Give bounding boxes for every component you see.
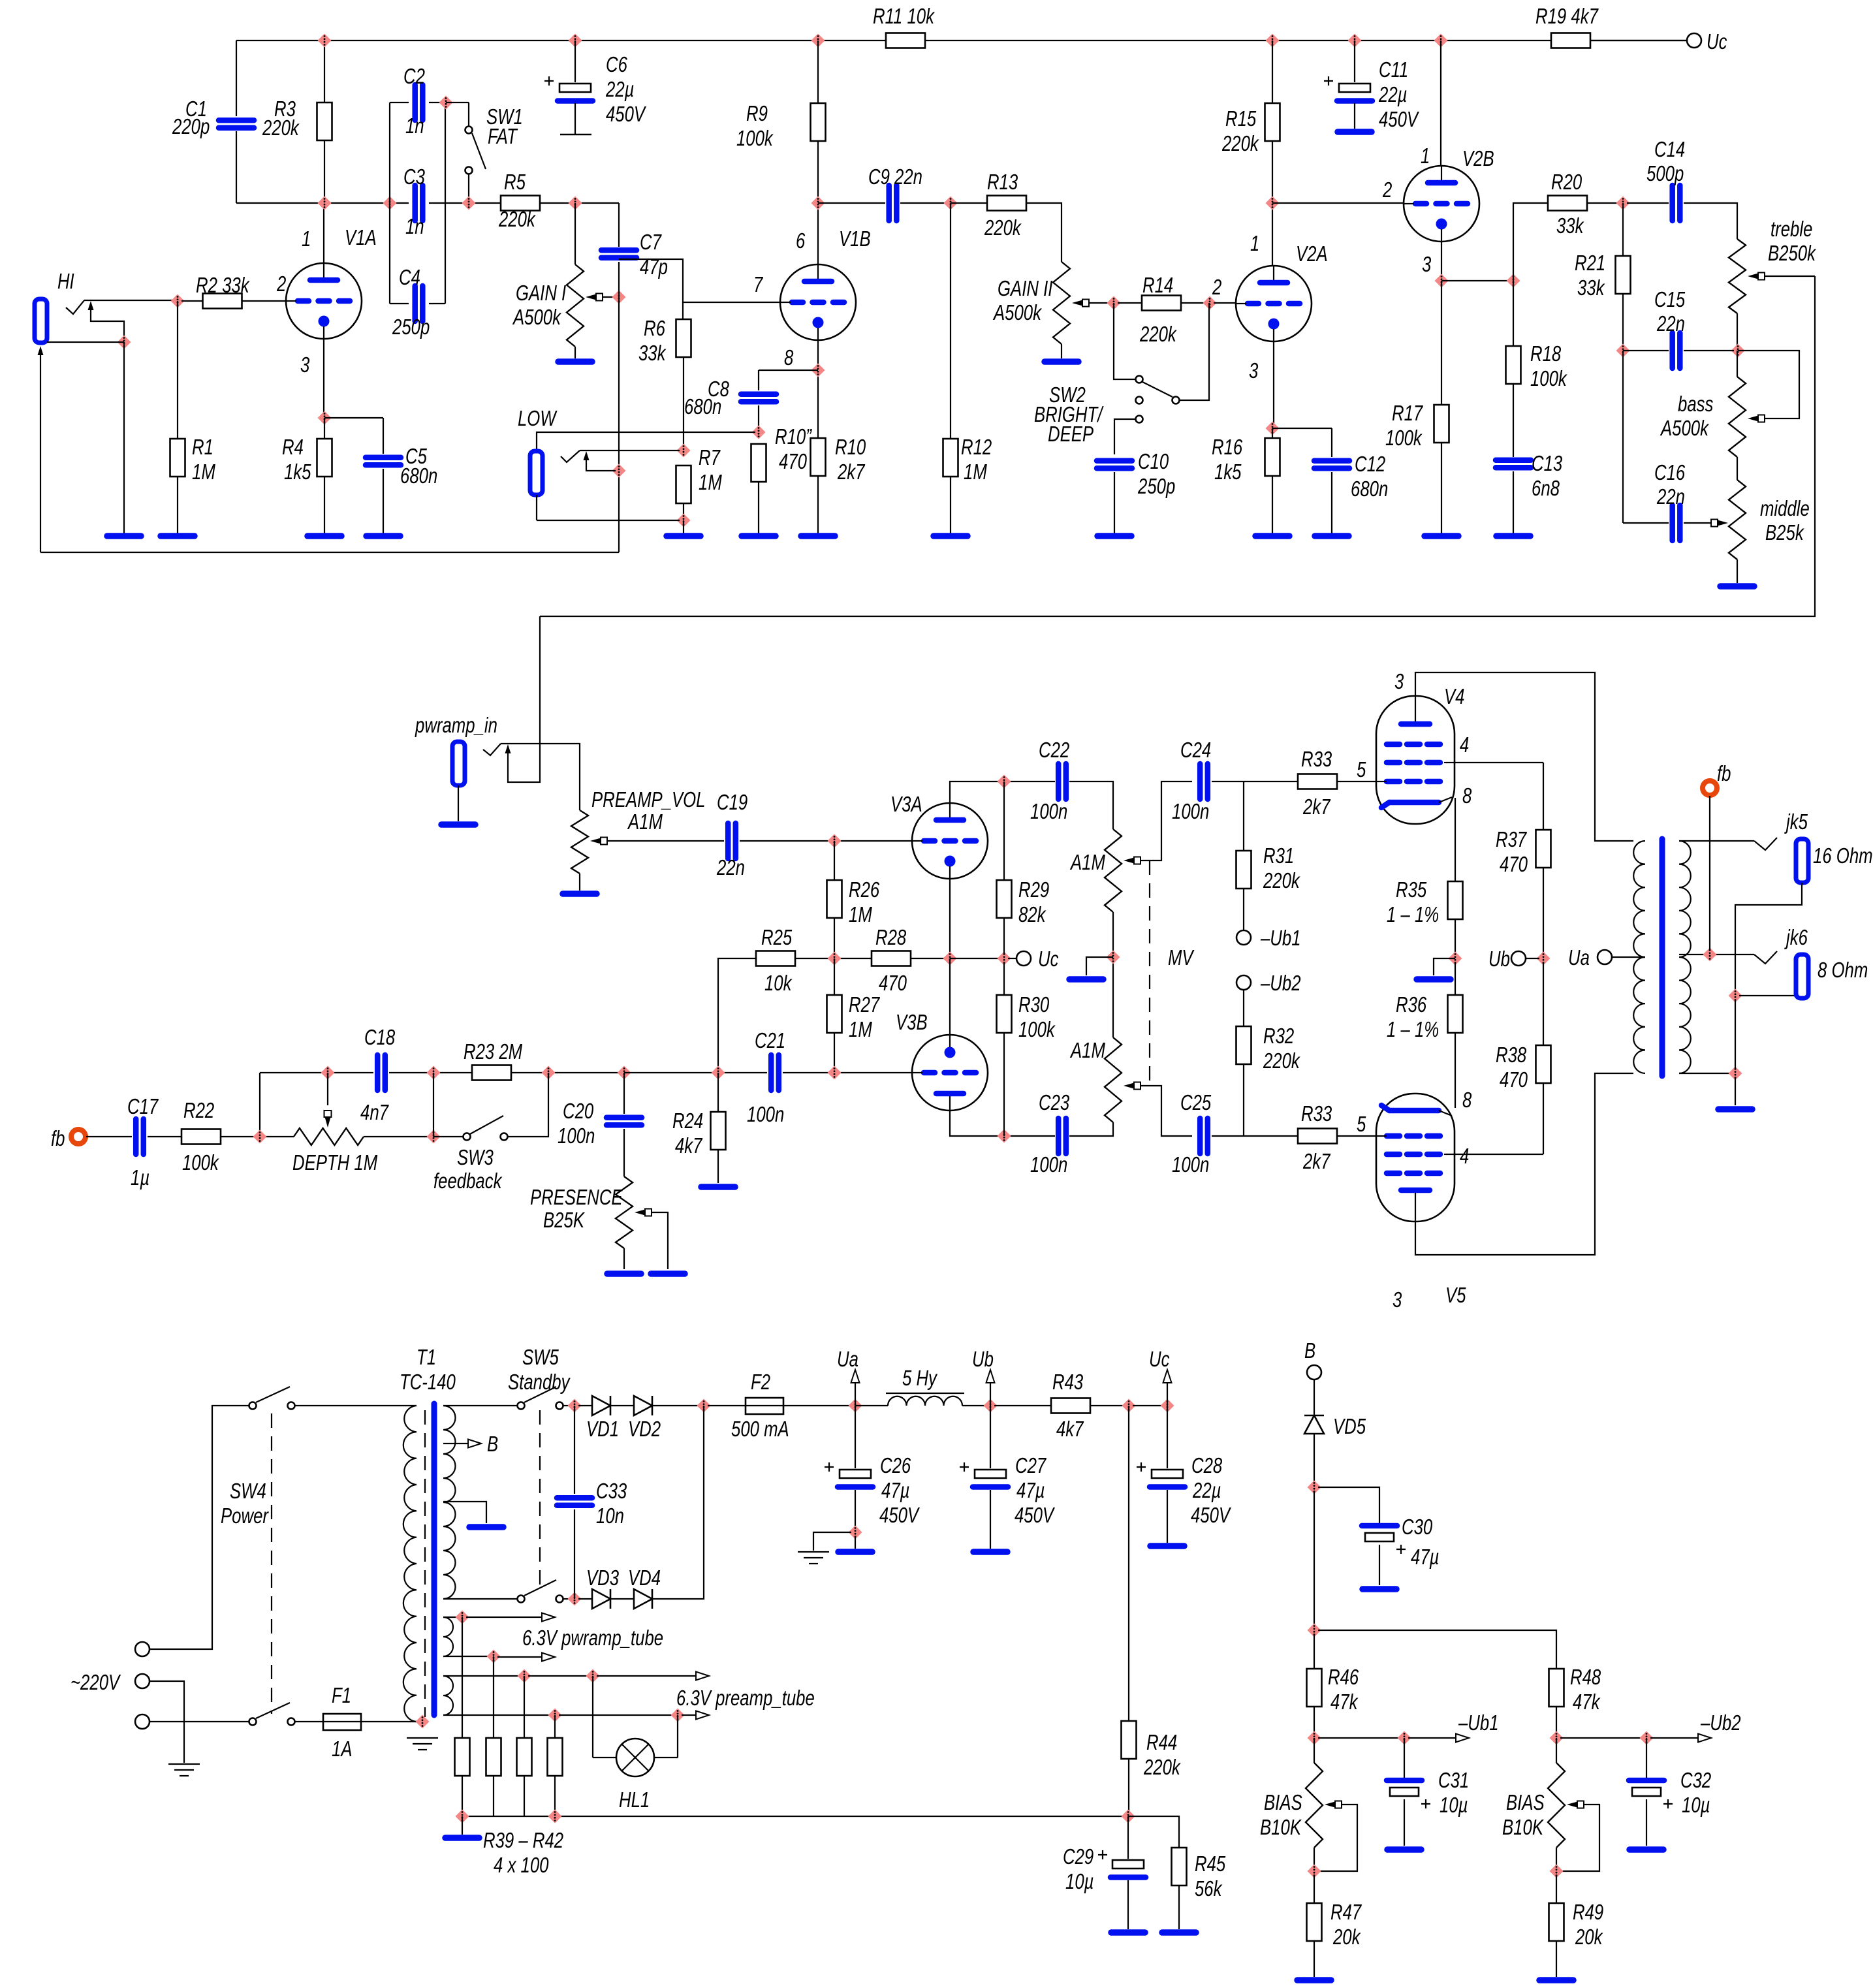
svg-text:22n: 22n bbox=[716, 855, 745, 879]
ground R4 bbox=[307, 533, 341, 539]
wire R18 bottom lead bbox=[1513, 384, 1514, 457]
junction R35-R36 bbox=[1449, 952, 1462, 966]
svg-text:10µ: 10µ bbox=[1682, 1793, 1710, 1817]
wire LOW tick wire bbox=[580, 450, 680, 451]
junction depth wiper node bbox=[321, 1066, 335, 1080]
wire C24 out bbox=[1212, 781, 1298, 782]
wire C12 bottom lead bbox=[1331, 472, 1332, 533]
wire C12 jog bbox=[1272, 428, 1332, 429]
svg-text:100k: 100k bbox=[1385, 426, 1423, 450]
wire LOW shunt wire bbox=[586, 456, 616, 471]
svg-text:250p: 250p bbox=[1137, 474, 1175, 498]
svg-text:C26: C26 bbox=[880, 1453, 911, 1477]
diode VD5 bbox=[1304, 1415, 1324, 1434]
wire R15 top lead bbox=[1272, 40, 1273, 103]
wire R1 bottom lead bbox=[177, 477, 178, 533]
svg-text:jk6: jk6 bbox=[1784, 925, 1808, 949]
svg-text:1µ: 1µ bbox=[131, 1165, 150, 1190]
ground MV bbox=[1069, 976, 1103, 983]
resistor R37 bbox=[1536, 830, 1551, 868]
wire R21 bottom lead bbox=[1622, 294, 1624, 351]
svg-text:R38: R38 bbox=[1496, 1043, 1527, 1067]
svg-text:R27: R27 bbox=[849, 992, 880, 1017]
arrow Uc arrow bbox=[1163, 1370, 1172, 1383]
wire R36 top lead bbox=[1455, 962, 1456, 995]
svg-text:4k7: 4k7 bbox=[1056, 1417, 1084, 1441]
resistor R19 bbox=[1551, 33, 1590, 48]
svg-text:R13: R13 bbox=[987, 170, 1018, 194]
svg-text:470: 470 bbox=[1500, 1067, 1528, 1092]
svg-text:1k5: 1k5 bbox=[1214, 460, 1242, 484]
svg-text:R43: R43 bbox=[1052, 1370, 1084, 1394]
wire LOW tip wire bbox=[537, 432, 755, 450]
svg-text:B250k: B250k bbox=[1768, 241, 1816, 265]
svg-text:220k: 220k bbox=[984, 215, 1022, 240]
svg-text:LOW: LOW bbox=[518, 406, 558, 430]
fuse F1 bbox=[323, 1714, 361, 1730]
ground (earth) C26 earth bbox=[798, 1552, 829, 1564]
wire R45 bottom lead bbox=[1178, 1885, 1180, 1929]
svg-text:MV: MV bbox=[1168, 945, 1195, 970]
ground C11 bbox=[1338, 129, 1372, 135]
wire C5 bottom lead bbox=[383, 469, 384, 533]
resistor R10 bbox=[811, 438, 826, 476]
capacitor C11 bbox=[1324, 76, 1372, 101]
wiper bass bbox=[1748, 415, 1765, 422]
svg-text:R29: R29 bbox=[1018, 877, 1049, 902]
wire C5 jog bbox=[324, 417, 383, 418]
wire R16 bottom lead bbox=[1272, 476, 1273, 533]
diode VD2 bbox=[634, 1396, 652, 1415]
svg-text:Ub: Ub bbox=[972, 1347, 994, 1371]
wire MV A wiper wire bbox=[1141, 781, 1192, 860]
switch contact SW4 bottom b bbox=[288, 1718, 295, 1726]
svg-text:R46: R46 bbox=[1328, 1665, 1359, 1689]
wire V1A cathode lead bbox=[323, 339, 324, 418]
svg-text:VD5: VD5 bbox=[1333, 1414, 1366, 1438]
wire R21 top lead bbox=[1622, 203, 1624, 256]
lamp HL1 bbox=[616, 1739, 654, 1776]
svg-text:22µ: 22µ bbox=[605, 77, 634, 101]
wire SW5 bottom out bbox=[563, 1598, 571, 1600]
wire bass wiper loop bbox=[1738, 351, 1799, 418]
svg-text:C32: C32 bbox=[1680, 1768, 1711, 1792]
svg-text:1k5: 1k5 bbox=[284, 460, 311, 484]
contact arrow HI shunt bbox=[88, 301, 94, 310]
switch contact SW4 top b bbox=[288, 1402, 295, 1410]
potentiometer treble pot bbox=[1729, 239, 1746, 313]
wire C30 jog bbox=[1318, 1487, 1379, 1526]
diode VD3 bbox=[592, 1589, 610, 1609]
svg-text:10k: 10k bbox=[764, 971, 793, 995]
wire R33a out bbox=[1337, 781, 1376, 782]
capacitor C29 bbox=[1098, 1850, 1146, 1878]
wire SW3 left drop bbox=[433, 1073, 434, 1137]
power tube V4 bbox=[1376, 696, 1455, 824]
capacitor C12 bbox=[1314, 461, 1349, 469]
jack jk5 bbox=[1796, 839, 1808, 883]
ground GAIN I bbox=[558, 358, 592, 365]
svg-text:1: 1 bbox=[1421, 144, 1430, 168]
wire C8 jog bbox=[759, 370, 818, 371]
svg-text:VD1: VD1 bbox=[586, 1417, 619, 1441]
wire row1197 a bbox=[1004, 781, 1055, 782]
wire R40 top lead bbox=[493, 1656, 494, 1738]
svg-text:470: 470 bbox=[779, 449, 808, 473]
switch contact SW5 top a bbox=[518, 1402, 525, 1410]
wire BIAS1 wiper wire bbox=[1318, 1805, 1357, 1871]
wire DEPTH right lead bbox=[364, 1136, 433, 1137]
wire V2B cathode lead bbox=[1441, 242, 1442, 281]
junction VD3 node bbox=[568, 1592, 582, 1606]
wire row1643 corner bbox=[259, 1073, 260, 1137]
svg-text:B: B bbox=[487, 1432, 498, 1456]
junction x948-LOW bbox=[612, 464, 626, 478]
svg-text:220k: 220k bbox=[1263, 868, 1300, 892]
wire C10 bottom lead bbox=[1114, 472, 1115, 533]
svg-text:2: 2 bbox=[1382, 178, 1392, 202]
svg-text:V2B: V2B bbox=[1462, 146, 1494, 170]
wire R42 bottom lead bbox=[554, 1776, 556, 1816]
svg-text:C30: C30 bbox=[1402, 1515, 1433, 1539]
svg-text:R12: R12 bbox=[961, 435, 992, 459]
svg-text:100k: 100k bbox=[1530, 366, 1567, 390]
junction R42 row node bbox=[548, 1810, 562, 1823]
svg-text:R15: R15 bbox=[1225, 106, 1257, 131]
svg-text:6.3V preamp_tube: 6.3V preamp_tube bbox=[676, 1686, 815, 1710]
switch contact SW4 top a bbox=[249, 1402, 257, 1410]
wire V2B plate lead bbox=[1440, 40, 1441, 166]
wire Ua tap wire bbox=[1612, 956, 1645, 958]
junction Ua node bbox=[849, 1399, 862, 1413]
potentiometer bass pot bbox=[1729, 377, 1746, 457]
wire heater gnd lead bbox=[462, 1816, 463, 1835]
resistor R20 bbox=[1548, 196, 1587, 211]
svg-text:C2: C2 bbox=[403, 64, 425, 88]
wire R45 feed bbox=[1128, 1816, 1179, 1848]
svg-text:2k7: 2k7 bbox=[837, 460, 866, 484]
wire R14 right lead bbox=[1181, 302, 1206, 304]
svg-text:Ua: Ua bbox=[1568, 945, 1590, 970]
capacitor C6 bbox=[544, 76, 593, 101]
SW5 gang dashed link bbox=[539, 1410, 541, 1593]
resistor R18 bbox=[1506, 346, 1521, 384]
wire R41 bottom lead bbox=[524, 1776, 525, 1816]
resistor R25 bbox=[756, 951, 795, 966]
svg-text:R32: R32 bbox=[1263, 1024, 1294, 1048]
wire OT sec bottom bbox=[1679, 1073, 1731, 1074]
wire R1 top lead bbox=[177, 301, 178, 439]
jack LOW tick bbox=[561, 450, 580, 462]
svg-text:R33: R33 bbox=[1301, 1101, 1332, 1126]
wire C26 earth jog bbox=[813, 1532, 851, 1551]
svg-text:C22: C22 bbox=[1039, 738, 1069, 762]
capacitor C33 bbox=[557, 1498, 592, 1506]
junction R39 gnd node bbox=[456, 1810, 469, 1823]
resistor R38 bbox=[1536, 1045, 1551, 1083]
wire R19 to Uc bbox=[1591, 40, 1687, 41]
wire wiper to C19 bbox=[607, 840, 724, 842]
terminal mains N bbox=[135, 1714, 150, 1729]
resistor R32 bbox=[1236, 1026, 1251, 1064]
svg-text:C11: C11 bbox=[1379, 57, 1408, 82]
svg-text:SW4: SW4 bbox=[230, 1479, 266, 1503]
ground C6 (rail) bbox=[560, 134, 591, 135]
wire VD4 out bbox=[652, 1406, 704, 1599]
diode VD1 bbox=[592, 1396, 610, 1415]
wire C33 top lead bbox=[574, 1406, 575, 1494]
wire bus1 a bbox=[236, 40, 886, 41]
wire pwramp_in shunt wire bbox=[508, 616, 540, 782]
svg-text:A500k: A500k bbox=[1660, 416, 1709, 440]
svg-text:C21: C21 bbox=[755, 1028, 785, 1052]
svg-text:middle: middle bbox=[1760, 496, 1810, 520]
wire V2B cathode jog bbox=[1441, 280, 1509, 281]
wire V1A plate lead bbox=[323, 203, 324, 263]
junction C20 node bbox=[618, 1066, 631, 1080]
svg-text:C20: C20 bbox=[563, 1099, 594, 1123]
svg-text:R10: R10 bbox=[835, 435, 866, 459]
capacitor C17 bbox=[136, 1119, 144, 1154]
svg-text:C13: C13 bbox=[1532, 451, 1563, 475]
wire HL1 right riser bbox=[677, 1715, 678, 1758]
wire R44 feed bbox=[1128, 1406, 1129, 1721]
svg-text:C9 22n: C9 22n bbox=[868, 165, 922, 189]
svg-text:Ua: Ua bbox=[837, 1347, 858, 1371]
wire R49 top lead bbox=[1556, 1875, 1557, 1903]
svg-text:T1: T1 bbox=[417, 1345, 436, 1369]
MV gang dashed link bbox=[1149, 860, 1150, 1086]
terminal -Ub1 mid bbox=[1236, 930, 1251, 945]
wire GAIN I top lead bbox=[574, 203, 576, 264]
svg-text:R9: R9 bbox=[746, 101, 768, 125]
switch contact SW4 bottom a bbox=[249, 1718, 257, 1726]
capacitor C26 bbox=[825, 1462, 873, 1487]
resistor R4 bbox=[317, 439, 332, 477]
ground pwramp_in bbox=[441, 821, 475, 828]
resistor R28 bbox=[872, 951, 911, 966]
wire C4 left lead bbox=[390, 303, 409, 304]
svg-text:R36: R36 bbox=[1396, 992, 1427, 1017]
junction bus1-V2B bbox=[1434, 34, 1448, 48]
svg-text:GAIN II: GAIN II bbox=[998, 276, 1052, 300]
svg-text:V3A: V3A bbox=[890, 792, 922, 816]
svg-text:47k: 47k bbox=[1330, 1690, 1359, 1714]
wire R27 bottom lead bbox=[834, 1033, 835, 1069]
junction R42 node bbox=[548, 1709, 562, 1722]
wire R30 bottom lead bbox=[1003, 1033, 1005, 1136]
ground PREAMP_VOL bbox=[563, 891, 597, 897]
wire V3A cathode lead bbox=[949, 879, 951, 955]
svg-text:VD4: VD4 bbox=[628, 1566, 661, 1590]
wire C6 bottom lead bbox=[574, 103, 576, 134]
junction bus2-caprail bbox=[383, 197, 397, 210]
junction R18 top bbox=[1507, 274, 1520, 288]
svg-text:feedback: feedback bbox=[433, 1169, 503, 1193]
ground C29 bbox=[1111, 1929, 1145, 1936]
svg-text:47µ: 47µ bbox=[1016, 1478, 1045, 1502]
junction bus2-R3 bbox=[318, 197, 332, 210]
junction bus1-C11 bbox=[1348, 34, 1362, 48]
resistor R42 bbox=[548, 1738, 563, 1776]
svg-text:R2 33k: R2 33k bbox=[196, 273, 250, 297]
ground C30 bbox=[1362, 1586, 1396, 1592]
jack pwramp_in tick bbox=[483, 744, 501, 755]
wire HI ring drop bbox=[123, 342, 125, 533]
svg-text:R35: R35 bbox=[1396, 877, 1427, 902]
wire row1643 d bbox=[624, 1072, 767, 1073]
capacitor C16 bbox=[1673, 505, 1680, 541]
switch lever SW4 top bbox=[256, 1387, 290, 1402]
ground middle pot bbox=[1720, 583, 1754, 590]
arrow heater1 top arrow bbox=[542, 1613, 555, 1622]
junction bus2-V1B bbox=[811, 197, 825, 210]
arrow Ub arrow bbox=[986, 1370, 995, 1383]
wire R7 bottom lead bbox=[683, 503, 684, 520]
wire C15 right lead bbox=[1684, 350, 1734, 351]
wire mains earth wire bbox=[150, 1681, 184, 1763]
capacitor C4 bbox=[415, 286, 423, 321]
svg-text:–Ub2: –Ub2 bbox=[1260, 971, 1300, 995]
svg-text:R49: R49 bbox=[1573, 1900, 1603, 1924]
wire heater2 bottom arrow wire bbox=[682, 1714, 697, 1716]
wire to C28 bbox=[1133, 1405, 1163, 1406]
wire Ub stub bbox=[1526, 958, 1539, 959]
svg-text:220k: 220k bbox=[1139, 322, 1177, 346]
svg-text:680n: 680n bbox=[1351, 477, 1388, 501]
svg-text:treble: treble bbox=[1771, 217, 1812, 241]
wire DEPTH wiper wire bbox=[327, 1073, 328, 1105]
wire C28 top lead bbox=[1167, 1406, 1168, 1468]
svg-text:3: 3 bbox=[300, 353, 310, 377]
wire C1 bottom lead bbox=[236, 131, 237, 203]
ground GAIN II bbox=[1045, 358, 1078, 365]
wire LOW sleeve drop bbox=[536, 495, 537, 520]
resistor R6 bbox=[676, 319, 691, 357]
ground R12 bbox=[934, 533, 968, 539]
switch contact SW2 pole bbox=[1136, 376, 1143, 383]
wire C20 bottom lead bbox=[623, 1129, 625, 1176]
wire C8 bottom lead bbox=[758, 405, 759, 432]
svg-text:VD3: VD3 bbox=[586, 1566, 620, 1590]
winding T1 heater winding 1 bbox=[443, 1617, 453, 1656]
svg-text:R16: R16 bbox=[1212, 435, 1243, 459]
wire fb to C17 bbox=[86, 1136, 132, 1137]
resistor R5 bbox=[501, 196, 540, 211]
resistor R15 bbox=[1265, 103, 1280, 141]
triode V2A bbox=[1236, 266, 1312, 341]
junction fb tap bbox=[1703, 948, 1717, 962]
wire Ua arrow stem bbox=[855, 1374, 856, 1406]
svg-text:680n: 680n bbox=[400, 464, 437, 488]
ground C31 bbox=[1387, 1846, 1421, 1853]
wire C28 bottom lead bbox=[1167, 1490, 1168, 1543]
svg-text:C14: C14 bbox=[1654, 137, 1685, 161]
capacitor C20 bbox=[606, 1118, 642, 1126]
wire R47 top lead bbox=[1314, 1875, 1315, 1903]
ground C5 bbox=[366, 533, 400, 539]
contact arrow HI tip bbox=[38, 346, 44, 355]
wire cathode node to R29 bbox=[950, 958, 1000, 959]
svg-text:100n: 100n bbox=[1172, 799, 1209, 823]
svg-text:C17: C17 bbox=[127, 1094, 159, 1118]
junction treble-C15 bbox=[1731, 344, 1745, 358]
switch contact SW5 bottom a bbox=[518, 1596, 525, 1603]
wire GAIN II bottom lead bbox=[1061, 344, 1062, 358]
svg-text:2: 2 bbox=[1212, 275, 1221, 299]
wire R12 bottom lead bbox=[950, 477, 951, 533]
wire R26 bottom lead bbox=[834, 918, 835, 955]
terminal Uc mid bbox=[1016, 951, 1031, 966]
svg-text:Ub: Ub bbox=[1488, 947, 1510, 971]
junction R47 node bbox=[1308, 1865, 1321, 1878]
svg-text:3: 3 bbox=[1393, 1287, 1402, 1312]
wire HI tick wire bbox=[84, 300, 174, 301]
wire jk6 sleeve wire bbox=[1739, 995, 1796, 996]
resistor R35 bbox=[1448, 881, 1463, 919]
svg-text:C29: C29 bbox=[1063, 1844, 1094, 1869]
svg-text:20k: 20k bbox=[1575, 1925, 1603, 1949]
capacitor C18 bbox=[377, 1055, 385, 1090]
svg-text:8: 8 bbox=[1462, 783, 1472, 808]
wire heater1 bottom lead bbox=[443, 1656, 490, 1657]
wire heater2 top lead bbox=[443, 1675, 520, 1677]
wire SW5 top out bbox=[563, 1405, 571, 1406]
wire V4 plate wire bbox=[1415, 672, 1633, 841]
svg-text:C7: C7 bbox=[640, 230, 662, 254]
svg-text:pwramp_in: pwramp_in bbox=[415, 713, 497, 737]
wire R42 top lead bbox=[554, 1715, 556, 1738]
junction R41 node bbox=[518, 1669, 531, 1683]
svg-text:220k: 220k bbox=[1221, 131, 1259, 155]
switch contact SW2 deep bbox=[1136, 416, 1143, 423]
svg-text:220k: 220k bbox=[498, 207, 536, 231]
resistor R23 bbox=[472, 1065, 511, 1081]
wiper BIAS 2 bbox=[1567, 1801, 1584, 1808]
wiper GAIN II bbox=[1072, 300, 1089, 307]
wire mains L wire bbox=[150, 1406, 249, 1649]
wire C25 out bbox=[1212, 1135, 1298, 1137]
wire R43 out bbox=[1090, 1405, 1125, 1406]
arrow -Ub1 arrow bbox=[1456, 1734, 1469, 1743]
wiper PREAMP_VOL bbox=[590, 838, 607, 845]
wire SW1 bottom lead bbox=[468, 174, 469, 203]
wire V3A plate lead bbox=[950, 781, 1000, 803]
svg-text:Power: Power bbox=[221, 1504, 270, 1528]
svg-text:2k7: 2k7 bbox=[1302, 1149, 1331, 1173]
svg-text:R10”: R10” bbox=[775, 424, 812, 449]
wire bus1 c bbox=[1591, 40, 1687, 41]
resistor R24 bbox=[711, 1112, 726, 1150]
terminal Ua mid bbox=[1598, 950, 1612, 964]
contact arrow pwramp_in shunt arrow bbox=[505, 744, 511, 753]
resistor R10b bbox=[751, 444, 766, 482]
wire VD3 in bbox=[578, 1598, 592, 1600]
svg-text:20k: 20k bbox=[1332, 1925, 1361, 1949]
svg-text:1A: 1A bbox=[332, 1737, 353, 1761]
svg-text:A1M: A1M bbox=[627, 810, 663, 834]
switch lever SW3 bbox=[470, 1116, 503, 1134]
resistor R47 bbox=[1307, 1903, 1322, 1941]
ground R45 bbox=[1162, 1929, 1196, 1936]
wire SW3 right wire bbox=[508, 1073, 548, 1137]
svg-text:C10: C10 bbox=[1138, 449, 1169, 473]
capacitor C8 bbox=[741, 394, 776, 402]
junction GAIN I wiper node bbox=[612, 291, 626, 304]
svg-text:33k: 33k bbox=[1556, 213, 1584, 238]
wire R10b bottom lead bbox=[758, 482, 759, 533]
arrow Ua arrow bbox=[851, 1370, 860, 1383]
